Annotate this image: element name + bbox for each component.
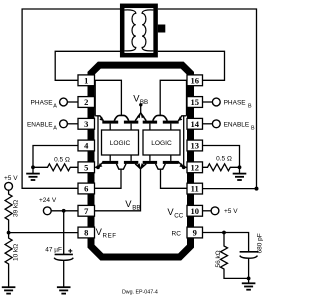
wire: winding A top to pin 6 (left outer loop)	[22, 9, 120, 188]
svg-text:CC: CC	[174, 213, 183, 220]
svg-text:0.5 Ω: 0.5 Ω	[216, 155, 232, 162]
svg-text:5: 5	[84, 162, 88, 172]
node: divider junction	[7, 231, 11, 235]
wire: winding B top to pin 11 (right outer loop)	[158, 9, 257, 189]
pin 1 box	[78, 75, 95, 86]
wire bottom dome to pin 11	[161, 169, 188, 188]
wire +24 V to pin 7	[51, 210, 78, 212]
ground (C1)	[57, 286, 71, 288]
IC U1 package outline (DIP-16, thick chamfered)	[91, 65, 191, 257]
wire VBB return to pin 7	[95, 169, 141, 211]
wire PHASE A to pin 2	[67, 101, 78, 103]
Q3/Q4 common node dome (to pin 16)	[153, 115, 167, 120]
node: RC junction	[222, 231, 226, 235]
svg-text:39 kΩ: 39 kΩ	[13, 200, 20, 217]
terminal +5 V (right)	[211, 207, 219, 215]
pin 16 box	[187, 75, 203, 86]
source driver transistors Q1-Q4 base bars (top row)	[102, 121, 118, 124]
LOGIC block (bridge A)	[102, 130, 139, 155]
ground (RC)	[242, 282, 256, 284]
resistor R2 10 kohm	[5, 233, 12, 288]
pin 8 box	[78, 227, 95, 238]
node: RC ground junction	[247, 277, 251, 281]
svg-text:16: 16	[190, 75, 199, 85]
terminal PHASE B	[212, 98, 220, 106]
Q1/Q2 common node dome (to pin 1)	[114, 115, 128, 120]
pin 12 box	[187, 162, 203, 173]
wire pin 16 to bridge B output (interior)	[160, 80, 187, 115]
pin 11 box	[187, 183, 203, 194]
wire pin 4 to sense ground node	[33, 146, 78, 168]
svg-text:+24 V: +24 V	[39, 197, 57, 204]
svg-text:Dwg. EP-047-4: Dwg. EP-047-4	[122, 289, 158, 295]
svg-text:9: 9	[193, 228, 197, 238]
base stubs top row to logic	[109, 124, 111, 130]
svg-text:REF: REF	[103, 233, 117, 240]
svg-text:12: 12	[190, 162, 199, 172]
wire pin 13 to sense ground node	[203, 146, 240, 168]
wire ENABLE A to pin 3	[67, 123, 78, 125]
resistor RS2 0.5 ohm	[203, 164, 240, 171]
pin 7 box	[78, 205, 95, 216]
svg-text:A: A	[53, 104, 57, 110]
svg-text:2: 2	[84, 97, 88, 107]
pin 4 box	[78, 140, 95, 151]
output column right upper (pin 16 to bridge)	[186, 80, 188, 116]
svg-text:13: 13	[190, 141, 199, 151]
svg-text:LOGIC: LOGIC	[151, 140, 172, 147]
svg-text:15: 15	[190, 97, 199, 107]
wire: winding A bottom to pin 1 (left inner loop)	[55, 51, 120, 80]
terminal PHASE A	[60, 98, 68, 106]
pin 13 box	[187, 140, 203, 151]
output column right lower (to sense node)	[183, 116, 185, 168]
ground (divider)	[2, 286, 16, 288]
pin 14 box	[187, 118, 203, 129]
svg-text:6: 6	[84, 184, 88, 194]
Q2/Q3 emitter node (VBB), arrowed slants	[135, 113, 146, 121]
node: left sense junction	[31, 165, 35, 169]
svg-text:10: 10	[190, 206, 199, 216]
svg-text:56 kΩ: 56 kΩ	[215, 250, 222, 267]
resistor R3 56 kohm	[221, 233, 249, 279]
svg-text:PHASE: PHASE	[224, 99, 247, 106]
svg-text:8: 8	[84, 228, 88, 238]
wire PHASE B to pin 15	[203, 101, 213, 103]
node: right sense junction	[238, 165, 242, 169]
pin 9 box	[187, 227, 203, 238]
Q8 emitter arrow to sense (right)	[178, 162, 184, 167]
pin 15 box	[187, 97, 203, 108]
svg-text:+5 V: +5 V	[4, 175, 18, 182]
svg-text:47 µF: 47 µF	[45, 246, 62, 253]
svg-text:BB: BB	[132, 205, 140, 212]
node VBB top feed	[139, 103, 142, 106]
motor shaft tab	[158, 25, 166, 33]
svg-text:ENABLE: ENABLE	[27, 121, 53, 128]
wire ENABLE B to pin 14	[203, 123, 213, 125]
Q6/Q7 emitter node (VBB return), arrowed slants	[135, 164, 146, 169]
Q1 emitter arrow (left)	[95, 116, 103, 121]
svg-text:7: 7	[84, 206, 89, 216]
motor winding A coil	[125, 10, 136, 51]
svg-text:B: B	[248, 104, 252, 110]
wire pin 9 RC network	[203, 233, 249, 252]
terminal +24 V	[43, 207, 51, 215]
junction at pin 11 loop corner	[255, 187, 259, 191]
svg-text:11: 11	[191, 184, 199, 194]
ground (right sense)	[233, 173, 247, 175]
Q7/Q8 common node dome (to pin 11)	[156, 164, 166, 169]
svg-text:0.5 Ω: 0.5 Ω	[54, 156, 70, 163]
Q5 emitter arrow to sense (left)	[98, 162, 104, 167]
wire pin 1 to bridge A output (interior)	[95, 80, 122, 115]
Q4 emitter arrow (right)	[178, 116, 186, 121]
svg-text:3: 3	[84, 119, 88, 129]
resistor RS1 0.5 ohm	[33, 164, 78, 171]
svg-text:B: B	[251, 126, 255, 132]
motor winding B coil	[142, 10, 153, 51]
pin 2 box	[78, 97, 95, 108]
svg-text:+5 V: +5 V	[224, 208, 238, 215]
output column left lower (to sense node)	[97, 116, 99, 168]
Q5/Q6 common node dome (to pin 6)	[116, 164, 126, 169]
ground (left sense)	[26, 173, 40, 175]
svg-text:1: 1	[84, 75, 88, 85]
resistor R1 39 kohm	[5, 190, 12, 232]
wire bottom dome to pin 6	[95, 169, 122, 188]
svg-text:10 kΩ: 10 kΩ	[13, 244, 20, 261]
pin 10 box	[187, 205, 203, 216]
output column left upper (pin 1 to bridge)	[94, 80, 96, 116]
wire: winding B bottom to pin 16 (right inner loop)	[158, 51, 225, 80]
pin 5 box	[78, 162, 95, 173]
svg-text:680 pF: 680 pF	[257, 233, 264, 253]
wire supply junction down to C1	[63, 211, 65, 255]
svg-text:A: A	[53, 126, 57, 132]
plus mark of C1	[68, 250, 72, 252]
capacitor C1 47 uF (polarized)	[55, 253, 73, 255]
node: left sense tie to pin 5	[96, 165, 100, 169]
base stubs bottom row from logic	[109, 155, 111, 161]
svg-text:RC: RC	[172, 230, 182, 237]
pin 6 box	[78, 183, 95, 194]
sink driver transistors Q5-Q8 base bars (bottom row)	[102, 161, 118, 164]
terminal +5 V (left)	[5, 182, 13, 190]
stepper motor load: winding box	[122, 6, 155, 55]
capacitor C2 680 pF	[240, 251, 259, 253]
terminal ENABLE A	[60, 120, 68, 128]
node: supply junction	[62, 209, 66, 213]
svg-text:ENABLE: ENABLE	[224, 121, 250, 128]
svg-text:PHASE: PHASE	[31, 99, 54, 106]
terminal ENABLE B	[212, 120, 220, 128]
pin 3 box	[78, 118, 95, 129]
wire pin 10 to +5 V	[203, 210, 212, 212]
svg-text:LOGIC: LOGIC	[110, 140, 131, 147]
LOGIC block (bridge B)	[143, 130, 180, 155]
node: right sense tie to pin 12	[182, 165, 186, 169]
svg-text:14: 14	[190, 119, 199, 129]
svg-text:4: 4	[84, 141, 89, 151]
wire divider to pin 8 VREF	[9, 232, 78, 234]
